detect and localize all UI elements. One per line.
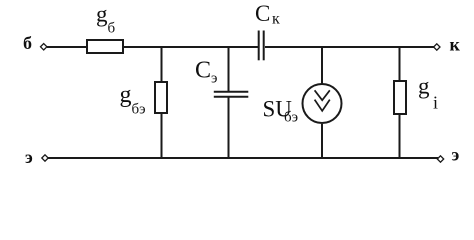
svg-text:g: g	[120, 82, 132, 108]
svg-text:э: э	[211, 71, 217, 87]
svg-text:бэ: бэ	[132, 102, 146, 118]
svg-text:g: g	[418, 74, 430, 99]
svg-text:C: C	[195, 58, 211, 84]
svg-text:э: э	[25, 147, 33, 167]
svg-text:i: i	[433, 93, 438, 113]
svg-text:б: б	[23, 33, 32, 53]
svg-text:C: C	[255, 1, 270, 26]
svg-text:б: б	[108, 21, 116, 37]
svg-text:э: э	[452, 145, 460, 165]
svg-text:бэ: бэ	[284, 110, 298, 126]
svg-text:к: к	[272, 11, 280, 28]
svg-text:g: g	[96, 2, 108, 27]
svg-text:к: к	[450, 35, 461, 55]
